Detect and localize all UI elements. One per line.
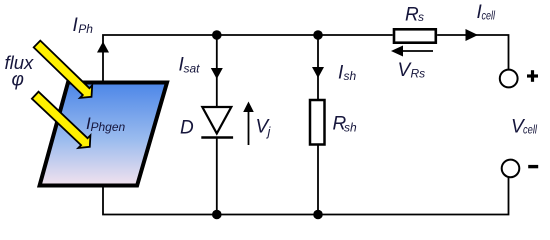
svg-text:sat: sat [184, 61, 201, 75]
svg-text:R: R [405, 4, 419, 25]
svg-text:sh: sh [344, 121, 357, 135]
svg-text:cell: cell [523, 123, 537, 137]
svg-text:φ: φ [12, 70, 24, 91]
svg-text:Rs: Rs [411, 67, 426, 81]
svg-text:cell: cell [482, 9, 496, 23]
svg-text:Phgen: Phgen [91, 120, 126, 134]
svg-text:s: s [418, 10, 424, 24]
svg-text:D: D [180, 118, 194, 139]
svg-text:Ph: Ph [78, 22, 93, 36]
svg-text:sh: sh [344, 69, 357, 83]
